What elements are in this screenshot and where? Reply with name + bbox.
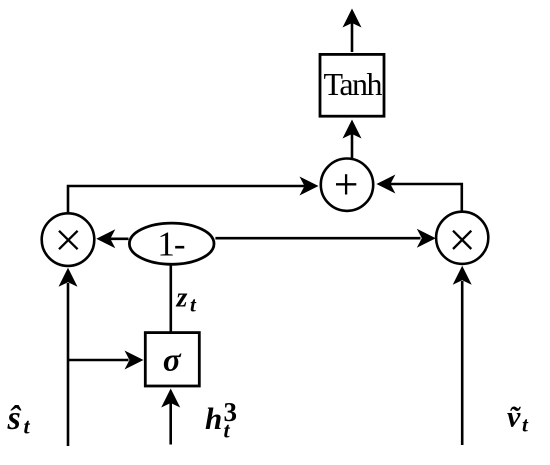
wire 1- ellipse to sigma box (z_t net) <box>170 265 173 333</box>
svg-text:t: t <box>24 414 31 439</box>
svg-text:ṽ: ṽ <box>507 401 521 434</box>
plus node (adder circle) <box>321 159 373 211</box>
wire 1- ellipse to right multiply <box>215 229 435 248</box>
svg-text:Tanh: Tanh <box>324 66 383 102</box>
svg-text:h: h <box>205 401 222 436</box>
svg-text:t: t <box>224 418 231 443</box>
svg-text:σ: σ <box>163 342 182 378</box>
svg-text:z: z <box>176 283 188 314</box>
wire h input to sigma box <box>161 389 180 445</box>
label s-hat_t <box>7 400 31 439</box>
wire right multiply to plus <box>376 175 461 211</box>
one-minus ellipse <box>129 223 214 264</box>
wire output arrow above Tanh <box>343 9 362 53</box>
wire s-hat branch to sigma box <box>68 351 144 370</box>
svg-text:1-: 1- <box>157 225 185 264</box>
label v-tilde_t <box>507 401 529 437</box>
wire left multiply to plus <box>68 177 319 213</box>
wire plus to Tanh <box>343 120 362 159</box>
multiply node left <box>42 213 95 266</box>
wire v-tilde input to right multiply <box>453 266 472 445</box>
wire s-hat input to left multiply <box>59 268 78 446</box>
multiply node right <box>436 212 488 264</box>
label h_t^3 <box>205 397 237 443</box>
label z_t <box>176 283 198 317</box>
svg-text:ŝ: ŝ <box>7 400 22 437</box>
sigma box <box>145 333 199 386</box>
wire 1- ellipse to left multiply <box>96 229 128 248</box>
Tanh box <box>320 54 384 116</box>
